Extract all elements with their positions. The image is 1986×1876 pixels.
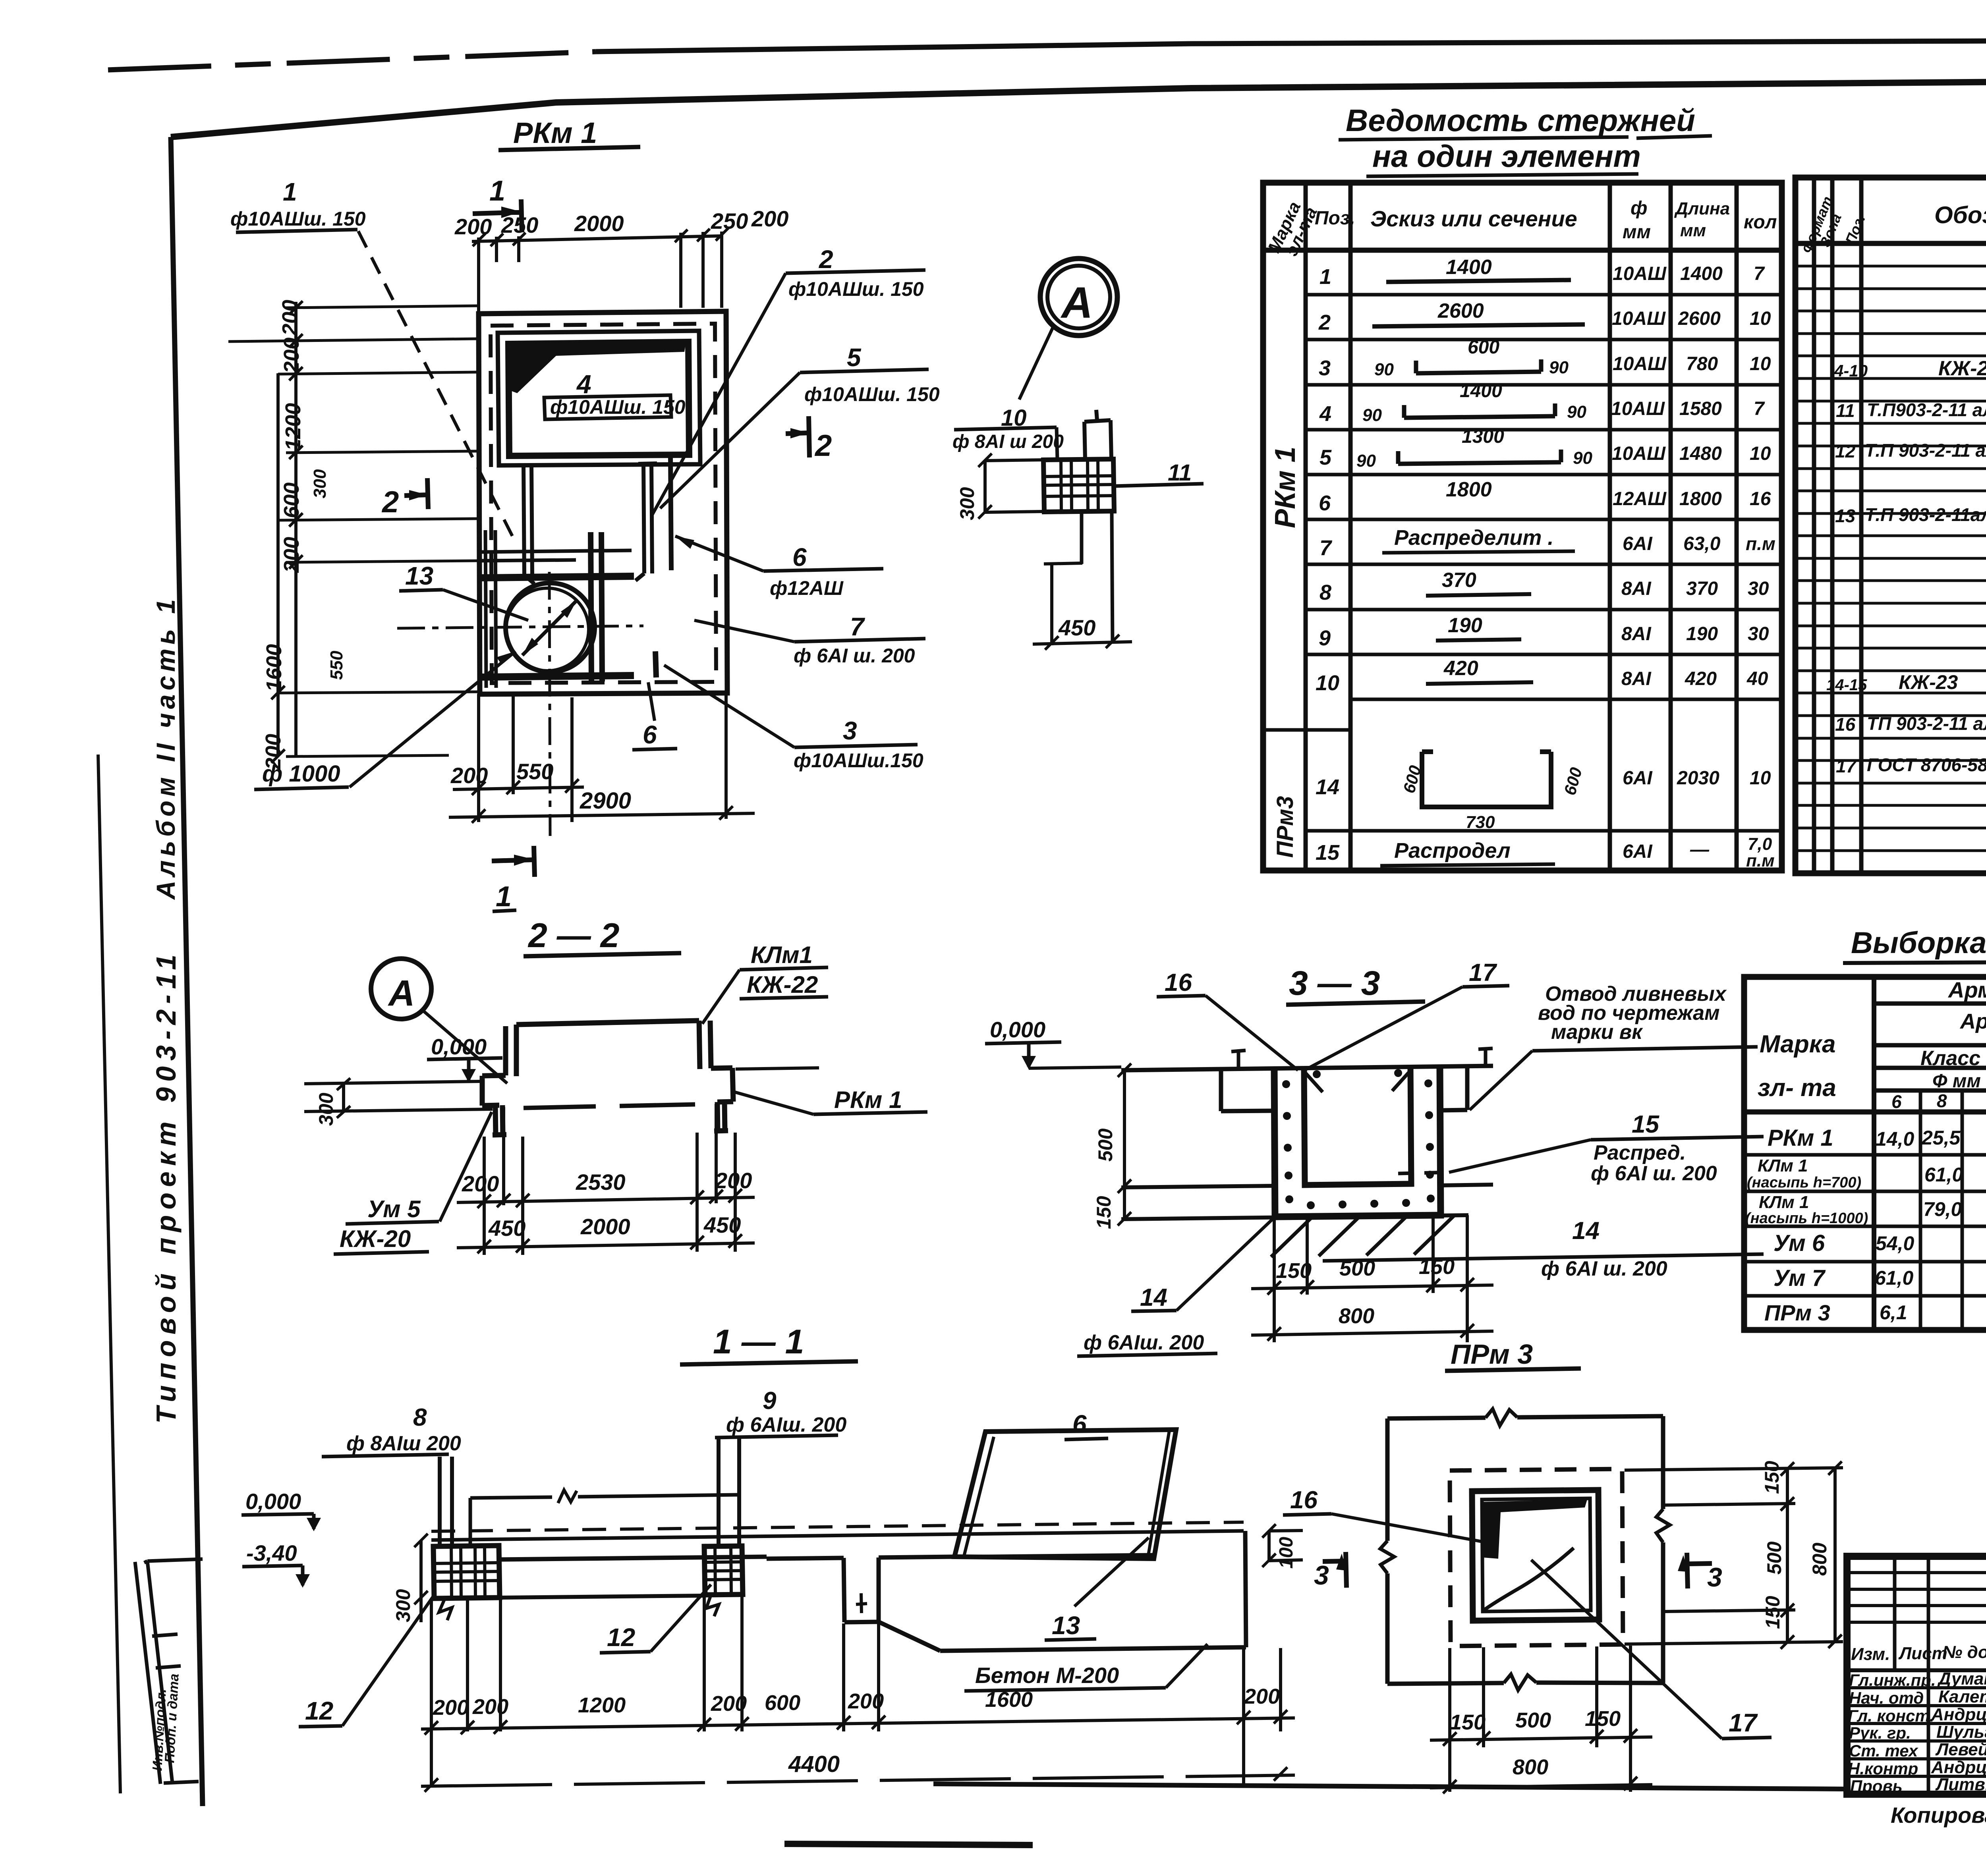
svg-text:13: 13 <box>1052 1611 1080 1640</box>
svg-text:Класс А I: Класс А I <box>1920 1047 1986 1070</box>
svg-text:2: 2 <box>819 245 833 274</box>
middle pit <box>767 1557 954 1622</box>
section 1-1 <box>241 1323 1303 1792</box>
inner frame top line <box>171 77 1986 137</box>
svg-text:1400: 1400 <box>1460 380 1502 401</box>
inner corner diagonals <box>1305 1071 1410 1092</box>
svg-text:12: 12 <box>1835 441 1856 461</box>
svg-text:200: 200 <box>462 1171 499 1196</box>
svg-text:200: 200 <box>278 300 302 336</box>
svg-text:ф 8АIш 200: ф 8АIш 200 <box>346 1432 461 1455</box>
channel sketch row 14 <box>1422 752 1551 807</box>
svg-text:90: 90 <box>1567 402 1586 422</box>
svg-text:1580: 1580 <box>1679 398 1722 419</box>
svg-text:8: 8 <box>413 1404 427 1431</box>
svg-text:Андрцевска: Андрцевска <box>1931 1758 1986 1777</box>
svg-text:Андрцевска: Андрцевска <box>1931 1705 1986 1724</box>
svg-text:500: 500 <box>1094 1128 1117 1162</box>
left dimension chains <box>278 302 296 757</box>
rebar pairs below window <box>518 465 537 584</box>
section marker 1 (bottom) <box>492 846 535 877</box>
ramp Б parallelogram <box>954 1430 1176 1559</box>
svg-text:90: 90 <box>1573 448 1592 468</box>
svg-text:Левейка: Левейка <box>1935 1740 1986 1759</box>
svg-text:Литв...ва: Литв...ва <box>1935 1775 1986 1794</box>
svg-text:КЖ-23: КЖ-23 <box>1938 357 1986 380</box>
svg-text:РКм 1: РКм 1 <box>1768 1125 1833 1151</box>
svg-text:800: 800 <box>1339 1304 1374 1328</box>
svg-text:Шульгина: Шульгина <box>1936 1722 1986 1742</box>
verticals <box>1874 977 1986 1330</box>
svg-text:ф 8АI ш 200: ф 8АI ш 200 <box>952 431 1064 452</box>
bottom dim chain <box>431 1597 1281 1787</box>
svg-text:8АI: 8АI <box>1621 578 1652 599</box>
inner dashed rectangle <box>491 324 716 683</box>
opening bold rect <box>1472 1490 1599 1621</box>
detail ПРм 3 <box>1283 1339 1843 1793</box>
black wedge <box>1481 1500 1587 1559</box>
svg-text:12: 12 <box>607 1623 635 1652</box>
svg-text:370: 370 <box>1686 578 1718 599</box>
svg-text:мм: мм <box>1680 221 1706 240</box>
svg-text:на один элемент: на один элемент <box>1372 139 1641 174</box>
outline: top slab with end ribs <box>516 1021 699 1025</box>
bottom short thick line <box>784 1844 1033 1845</box>
svg-text:кол: кол <box>1744 212 1777 233</box>
svg-text:ф 6АI ш. 200: ф 6АI ш. 200 <box>1541 1257 1667 1280</box>
svg-text:10: 10 <box>1750 308 1771 329</box>
svg-text:Т.П903-2-11 ал.II ч.2 КЖИ- К: Т.П903-2-11 ал.II ч.2 КЖИ- КР1 <box>1867 400 1986 420</box>
window opening outer <box>498 331 700 465</box>
svg-text:1400: 1400 <box>1446 256 1492 279</box>
svg-text:ф10АШш. 150: ф10АШш. 150 <box>804 383 940 405</box>
svg-text:90: 90 <box>1362 405 1382 425</box>
svg-text:2530: 2530 <box>576 1170 626 1195</box>
right 100 dim + 16 label <box>1269 1531 1303 1561</box>
svg-text:200: 200 <box>280 537 303 573</box>
svg-text:РКм 1: РКм 1 <box>1269 446 1301 528</box>
svg-text:15: 15 <box>1632 1111 1660 1138</box>
svg-text:п.м: п.м <box>1746 851 1775 870</box>
svg-text:РКм 1: РКм 1 <box>513 116 597 149</box>
svg-text:200: 200 <box>472 1695 508 1719</box>
svg-text:1: 1 <box>1319 265 1331 289</box>
right short bars <box>670 457 671 570</box>
svg-text:90: 90 <box>1374 360 1394 379</box>
svg-text:10АШ: 10АШ <box>1613 353 1667 374</box>
450 dim below <box>1082 512 1113 643</box>
svg-text:420: 420 <box>1443 657 1478 680</box>
svg-text:17: 17 <box>1729 1708 1758 1737</box>
svg-text:Т.П 903-2-11ал.II ч.2 КЖИ-МН24: Т.П 903-2-11ал.II ч.2 КЖИ-МН24 <box>1865 504 1986 525</box>
svg-text:ПРм 3: ПРм 3 <box>1764 1300 1830 1325</box>
svg-text:79,0: 79,0 <box>1923 1198 1962 1220</box>
svg-text:63,0: 63,0 <box>1683 533 1721 554</box>
svg-text:450: 450 <box>488 1216 525 1241</box>
300 dim <box>419 1541 423 1622</box>
svg-text:ф12АШ: ф12АШ <box>770 577 844 599</box>
svg-text:А: А <box>1060 278 1093 327</box>
bottom 2900 dim <box>449 813 755 817</box>
svg-text:600: 600 <box>280 483 303 518</box>
svg-text:800: 800 <box>1513 1755 1548 1779</box>
svg-text:ф: ф <box>1631 198 1647 219</box>
svg-text:ПРм 3: ПРм 3 <box>1451 1339 1533 1370</box>
svg-text:0,000: 0,000 <box>431 1034 487 1059</box>
svg-text:17: 17 <box>1469 959 1497 986</box>
bottom-left small stamp box <box>144 1559 203 1783</box>
svg-text:1200: 1200 <box>578 1693 626 1717</box>
title block (stamp) <box>1847 1556 1986 1828</box>
leader from circle <box>1019 326 1053 400</box>
svg-text:ф 6АI ш. 200: ф 6АI ш. 200 <box>1591 1162 1717 1185</box>
svg-text:10АШ: 10АШ <box>1612 308 1666 329</box>
left dims 500/150 <box>1123 1070 1126 1219</box>
svg-text:40: 40 <box>1746 668 1768 689</box>
svg-text:3 — 3: 3 — 3 <box>1289 964 1380 1002</box>
svg-text:200: 200 <box>433 1696 469 1720</box>
bottom under columns <box>500 1596 704 1598</box>
curved line <box>1483 1548 1574 1611</box>
svg-text:10АШ: 10АШ <box>1611 398 1665 419</box>
svg-text:450: 450 <box>703 1212 741 1237</box>
plan view РКм 1 <box>228 116 940 913</box>
svg-text:№ докум.: № докум. <box>1942 1642 1986 1662</box>
svg-text:3: 3 <box>843 716 857 745</box>
svg-text:250: 250 <box>501 212 538 237</box>
svg-text:6,1: 6,1 <box>1880 1301 1907 1324</box>
svg-text:Ф мм: Ф мм <box>1932 1071 1981 1092</box>
svg-text:1600: 1600 <box>985 1688 1033 1712</box>
svg-text:200: 200 <box>715 1168 752 1193</box>
lower rebar grid <box>481 576 634 578</box>
svg-text:500: 500 <box>1515 1708 1551 1732</box>
svg-text:1200: 1200 <box>281 403 305 451</box>
svg-text:150: 150 <box>1762 1596 1784 1629</box>
svg-text:Распродел: Распродел <box>1394 839 1511 863</box>
svg-text:3: 3 <box>1707 1562 1722 1592</box>
svg-text:550: 550 <box>516 759 553 784</box>
svg-text:3: 3 <box>1314 1560 1329 1590</box>
top-right lug <box>1084 410 1111 460</box>
svg-text:300: 300 <box>310 469 330 498</box>
svg-text:ф10АШш.150: ф10АШш.150 <box>794 749 923 772</box>
svg-text:Длина: Длина <box>1674 199 1730 218</box>
svg-text:4: 4 <box>1319 402 1331 426</box>
break zigzags <box>1486 1409 1517 1426</box>
svg-text:10: 10 <box>1316 671 1339 695</box>
svg-text:4-10: 4-10 <box>1834 361 1868 380</box>
svg-text:190: 190 <box>1448 614 1482 637</box>
svg-text:6: 6 <box>792 543 807 571</box>
svg-text:КЛм 1: КЛм 1 <box>1758 1156 1808 1175</box>
svg-text:Лист: Лист <box>1898 1644 1947 1663</box>
svg-text:54,0: 54,0 <box>1876 1232 1915 1255</box>
svg-text:Ст. тех: Ст. тех <box>1849 1741 1918 1760</box>
svg-text:6АI: 6АI <box>1623 768 1653 789</box>
svg-text:ТП 903-2-11 ал.II ч.2 КЖИ-М: ТП 903-2-11 ал.II ч.2 КЖИ-МН37 <box>1867 713 1986 734</box>
svg-text:Провь: Провь <box>1850 1777 1903 1795</box>
diameter arrow <box>522 600 577 655</box>
svg-text:зл- та: зл- та <box>1758 1074 1836 1102</box>
svg-text:6АI: 6АI <box>1623 533 1653 554</box>
svg-text:0,000: 0,000 <box>245 1489 301 1514</box>
svg-text:2: 2 <box>814 429 832 463</box>
svg-text:600: 600 <box>1468 337 1499 358</box>
svg-text:ф 1000: ф 1000 <box>262 761 340 787</box>
bottom dims 150 500 150 / 800 <box>1274 1214 1467 1342</box>
svg-text:500: 500 <box>1763 1541 1785 1575</box>
svg-text:3: 3 <box>1319 356 1331 380</box>
svg-text:0,000: 0,000 <box>990 1017 1045 1042</box>
svg-text:7: 7 <box>850 612 865 641</box>
right dims <box>1625 1468 1843 1644</box>
svg-text:61,0: 61,0 <box>1924 1164 1963 1186</box>
svg-text:14: 14 <box>1140 1284 1167 1311</box>
circle A <box>371 959 431 1019</box>
svg-text:9: 9 <box>1319 626 1331 650</box>
svg-text:90: 90 <box>1549 358 1569 377</box>
svg-text:Эскиз или сечение: Эскиз или сечение <box>1370 206 1577 231</box>
svg-text:Гл.инж.пр.: Гл.инж.пр. <box>1849 1671 1936 1689</box>
svg-text:16: 16 <box>1165 969 1192 996</box>
svg-text:300: 300 <box>956 487 978 520</box>
svg-text:Нач. отд: Нач. отд <box>1849 1689 1924 1707</box>
left step and foot <box>482 1075 506 1135</box>
svg-text:6: 6 <box>643 720 657 749</box>
detail circle А (top) <box>952 259 1204 650</box>
svg-text:800: 800 <box>1808 1542 1831 1576</box>
svg-text:2000: 2000 <box>580 1214 630 1239</box>
svg-text:ГОСТ 8706-58: ГОСТ 8706-58 <box>1867 755 1986 775</box>
svg-text:200: 200 <box>454 214 492 239</box>
dim extension verticals <box>484 1104 735 1255</box>
svg-text:ф10АШш. 150: ф10АШш. 150 <box>550 396 686 418</box>
svg-text:12АШ: 12АШ <box>1613 488 1667 510</box>
svg-text:14-15: 14-15 <box>1826 676 1867 694</box>
header horizontals <box>1874 1001 1986 1090</box>
svg-text:30: 30 <box>1748 578 1769 599</box>
svg-text:ф10АШш. 150: ф10АШш. 150 <box>788 278 924 300</box>
svg-text:1600: 1600 <box>262 644 286 692</box>
bottom dims <box>1450 1646 1631 1792</box>
svg-text:10АШ: 10АШ <box>1613 263 1667 284</box>
4400 dim <box>421 1775 1295 1786</box>
svg-text:200: 200 <box>711 1692 747 1716</box>
svg-text:Думан: Думан <box>1937 1669 1986 1689</box>
svg-text:11: 11 <box>1168 460 1192 486</box>
svg-text:Поз.: Поз. <box>1315 208 1355 229</box>
svg-text:200: 200 <box>751 206 788 231</box>
left wall band (elevation behind) <box>470 1495 739 1546</box>
svg-text:6: 6 <box>1072 1410 1087 1438</box>
top rebar hooks <box>1231 1048 1493 1069</box>
svg-text:9: 9 <box>763 1387 777 1415</box>
svg-text:2900: 2900 <box>580 788 631 814</box>
svg-text:300: 300 <box>315 1092 337 1126</box>
data row horizontals <box>1744 1155 1986 1296</box>
svg-text:п.м: п.м <box>1746 533 1775 554</box>
svg-text:мм: мм <box>1623 222 1651 243</box>
svg-text:2600: 2600 <box>1437 299 1484 322</box>
svg-text:370: 370 <box>1442 569 1476 592</box>
svg-text:Распределит .: Распределит . <box>1394 526 1553 550</box>
svg-text:14: 14 <box>1572 1217 1600 1245</box>
ground lines left <box>304 1081 493 1112</box>
left frame line <box>171 137 203 1806</box>
svg-text:марки вк: марки вк <box>1551 1021 1643 1044</box>
slab soffit inner line <box>524 1104 695 1108</box>
svg-text:Гл. конст.: Гл. конст. <box>1848 1706 1934 1725</box>
svg-text:ф 6АIш. 200: ф 6АIш. 200 <box>726 1413 846 1436</box>
svg-text:(насыпь h=700): (насыпь h=700) <box>1747 1174 1861 1191</box>
svg-text:6: 6 <box>1319 491 1331 515</box>
rebar dots <box>1282 1069 1435 1209</box>
svg-text:16: 16 <box>1290 1486 1318 1514</box>
section 2-2 <box>304 917 927 1255</box>
svg-text:1: 1 <box>283 178 297 206</box>
svg-text:12: 12 <box>305 1697 333 1725</box>
window opening inner bold <box>508 342 689 456</box>
svg-text:КЖ-22: КЖ-22 <box>747 971 818 998</box>
svg-text:2030: 2030 <box>1677 768 1719 789</box>
rebars above left column <box>440 1457 452 1546</box>
svg-text:1800: 1800 <box>1446 478 1492 501</box>
svg-text:1480: 1480 <box>1679 443 1722 464</box>
svg-text:13: 13 <box>405 562 433 590</box>
table: Ведомость стержней (left half) <box>1263 103 1782 870</box>
svg-text:10: 10 <box>1750 353 1771 374</box>
svg-text:Т.П 903-2-11 ал.II ч.2 КЖИ- КР: Т.П 903-2-11 ал.II ч.2 КЖИ- КР2 <box>1865 440 1986 461</box>
svg-text:200: 200 <box>848 1689 884 1713</box>
300 dim <box>985 460 1043 512</box>
svg-text:200: 200 <box>1244 1685 1280 1708</box>
black wedge in window <box>510 342 686 393</box>
svg-text:Типовой проект 903-2-11: Типовой проект 903-2-11 <box>151 949 182 1424</box>
svg-text:Альбом II часть 1: Альбом II часть 1 <box>151 595 180 900</box>
left margin rotated stamp text <box>135 595 203 1784</box>
300 dim left <box>342 1085 345 1112</box>
main outline <box>1121 1066 1493 1070</box>
svg-text:2600: 2600 <box>1678 308 1721 329</box>
svg-text:550: 550 <box>327 650 346 680</box>
svg-text:2000: 2000 <box>574 211 624 236</box>
svg-text:150: 150 <box>1761 1461 1783 1494</box>
svg-text:Арматурная сталь: Арматурная сталь <box>1959 1009 1986 1033</box>
svg-text:8: 8 <box>1937 1090 1947 1111</box>
bottom frame line <box>933 1784 1848 1789</box>
svg-text:7: 7 <box>1754 263 1765 284</box>
svg-text:ф10АШш. 150: ф10АШш. 150 <box>230 208 366 230</box>
svg-text:2 — 2: 2 — 2 <box>527 917 619 955</box>
svg-text:61,0: 61,0 <box>1875 1267 1914 1289</box>
svg-text:17: 17 <box>1836 756 1857 776</box>
top surface lines <box>431 1531 1244 1540</box>
svg-text:РКм 1: РКм 1 <box>834 1087 902 1113</box>
svg-text:5: 5 <box>847 343 862 372</box>
svg-text:420: 420 <box>1685 668 1717 689</box>
svg-text:25,5: 25,5 <box>1921 1127 1961 1149</box>
svg-text:1300: 1300 <box>1462 426 1504 447</box>
grid <box>1263 183 1782 870</box>
svg-text:30: 30 <box>1748 623 1769 645</box>
foundation under ramp <box>879 1531 1246 1651</box>
svg-text:10АШ: 10АШ <box>1612 443 1666 464</box>
svg-text:КЖ-23: КЖ-23 <box>1899 671 1958 693</box>
svg-text:7: 7 <box>1319 536 1333 560</box>
circle (hole ф1000) <box>506 583 595 672</box>
svg-text:150: 150 <box>1585 1707 1621 1731</box>
svg-text:15: 15 <box>1316 841 1340 865</box>
top outer broken line <box>108 52 596 70</box>
svg-text:Арматурные изделия: Арматурные изделия <box>1947 977 1986 1002</box>
svg-text:14: 14 <box>1316 775 1339 799</box>
svg-text:КЖ-20: КЖ-20 <box>340 1226 411 1252</box>
svg-text:ПРм3: ПРм3 <box>1272 796 1298 858</box>
svg-text:200: 200 <box>450 763 488 788</box>
bottom small dims 200/550 <box>479 694 572 822</box>
right step and foot <box>711 1068 733 1131</box>
svg-text:4400: 4400 <box>788 1751 840 1777</box>
svg-text:Калетов: Калетов <box>1938 1687 1986 1706</box>
svg-text:1: 1 <box>496 881 512 913</box>
outer rect with breaks <box>1387 1416 1663 1684</box>
svg-text:Распред.: Распред. <box>1594 1141 1686 1164</box>
svg-text:10: 10 <box>1750 443 1771 464</box>
svg-text:6АI: 6АI <box>1623 841 1653 862</box>
svg-text:Бетон М-200: Бетон М-200 <box>975 1663 1119 1688</box>
svg-text:300: 300 <box>392 1589 414 1622</box>
svg-text:250: 250 <box>711 208 748 234</box>
svg-text:Ум 6: Ум 6 <box>1773 1230 1825 1256</box>
outer left margin line <box>98 755 120 1793</box>
svg-text:150: 150 <box>1276 1259 1312 1283</box>
svg-text:730: 730 <box>1466 813 1495 832</box>
second column <box>704 1546 743 1595</box>
svg-text:Копировал: Гу: Копировал: Гу <box>1891 1803 1986 1828</box>
small column square <box>1043 459 1114 512</box>
svg-text:11: 11 <box>1836 400 1855 421</box>
svg-text:100: 100 <box>1276 1537 1297 1569</box>
section 3-3 <box>985 959 1764 1356</box>
svg-text:8АI: 8АI <box>1621 623 1652 645</box>
svg-text:780: 780 <box>1686 353 1718 374</box>
svg-text:2: 2 <box>1318 311 1331 334</box>
left column block <box>433 1546 500 1598</box>
svg-text:16: 16 <box>1835 714 1856 735</box>
svg-text:150: 150 <box>1450 1710 1486 1734</box>
svg-text:1: 1 <box>489 175 505 207</box>
svg-text:8АI: 8АI <box>1621 668 1652 689</box>
svg-text:1 — 1: 1 — 1 <box>713 1323 804 1361</box>
table: Ведомость стержней (right half, Обозначение/Наименование) <box>1795 178 1986 873</box>
circle A <box>1040 259 1117 336</box>
svg-text:150: 150 <box>1093 1196 1115 1229</box>
svg-text:7: 7 <box>1754 398 1765 419</box>
svg-text:90: 90 <box>1356 451 1376 471</box>
svg-text:4: 4 <box>576 369 591 399</box>
hatch below <box>1271 1216 1454 1257</box>
svg-text:16: 16 <box>1750 488 1771 510</box>
svg-text:190: 190 <box>1686 623 1718 645</box>
svg-text:Рук. гр.: Рук. гр. <box>1849 1724 1911 1742</box>
table: Выборка стали на один элемент <box>1744 926 1986 1330</box>
dim line 200 2500 200 <box>457 1197 755 1202</box>
svg-text:—: — <box>1690 839 1710 860</box>
svg-text:Ум 7: Ум 7 <box>1773 1265 1826 1291</box>
svg-text:Ум 5: Ум 5 <box>367 1196 421 1222</box>
svg-text:КЛм 1: КЛм 1 <box>1759 1193 1809 1212</box>
